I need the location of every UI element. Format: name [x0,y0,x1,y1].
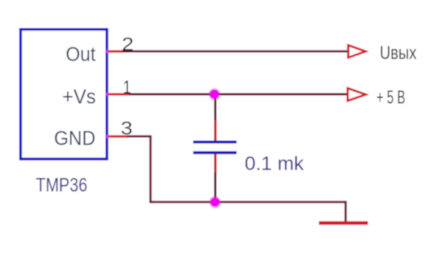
svg-text:+Vs: +Vs [62,86,96,108]
svg-text:+ 5 В: + 5 В [376,88,405,108]
capacitor C1 top plate [193,141,236,144]
ground bar [319,221,368,224]
wire net Uout: pin2 to arrow [123,50,349,52]
pin 1 stub (+Vs) [108,93,131,95]
capacitor C1 bottom lead: red near plate, maroon to bottom wire [214,154,217,174]
wire net +5V: pin1 to arrow [129,93,348,95]
svg-text:TMP36: TMP36 [36,175,88,197]
pin 1 connection dot [106,92,110,96]
capacitor C1 top lead: maroon from junction, red near plate [214,94,216,121]
pin 2 stub (Out) [108,50,124,52]
IC U1 body (TMP36) [21,29,107,159]
wire net GND: pin3 right, down, along bottom, to ground [127,136,346,222]
capacitor C1 bottom plate [193,151,236,154]
svg-text:GND: GND [54,128,96,150]
+5V arrow connector [348,88,366,101]
junction dot on GND net [209,196,221,208]
pin 3 connection dot [106,135,110,139]
svg-text:Out: Out [66,44,96,66]
pin 3 stub (GND) [108,135,129,137]
svg-text:0.1 mk: 0.1 mk [245,153,304,175]
output arrow (Uout connector) [348,45,365,57]
svg-text:Uвых: Uвых [380,43,417,63]
pin 2 connection dot [106,50,110,54]
junction dot on +5V net [209,88,221,100]
